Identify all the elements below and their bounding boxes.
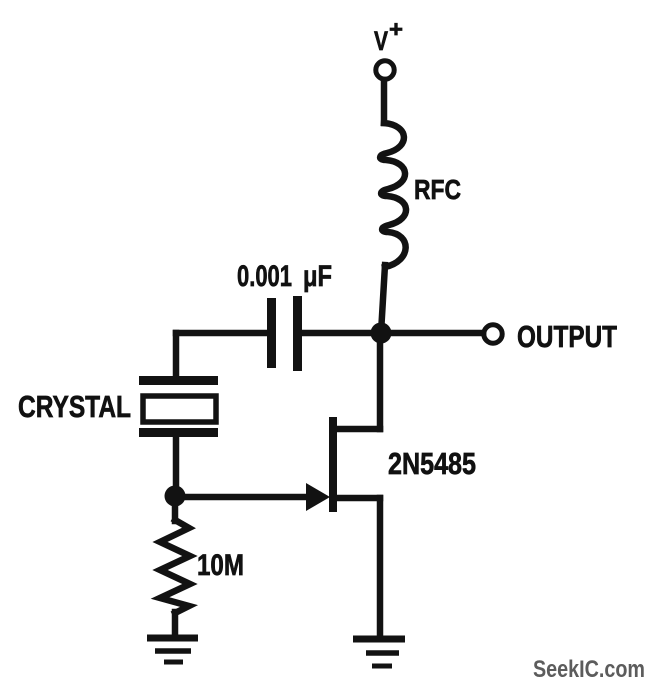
svg-text:CRYSTAL: CRYSTAL [18, 389, 131, 424]
svg-text:+: + [389, 16, 403, 42]
svg-text:2N5485: 2N5485 [388, 446, 476, 481]
svg-text:10M: 10M [197, 549, 244, 582]
svg-text:RFC: RFC [414, 174, 461, 205]
svg-text:0.001: 0.001 [237, 260, 292, 293]
svg-text:μF: μF [303, 260, 332, 293]
svg-text:SeekIC.com: SeekIC.com [533, 656, 645, 683]
svg-text:OUTPUT: OUTPUT [517, 319, 617, 354]
svg-text:V: V [374, 26, 388, 56]
